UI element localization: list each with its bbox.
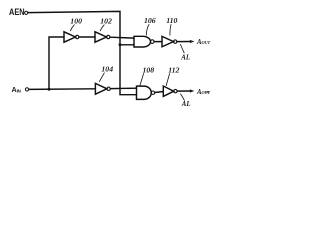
inverter 100: [64, 32, 79, 42]
leader line 104: [99, 73, 104, 82]
svg-text:OUT: OUT: [202, 40, 211, 45]
NAND gate 106: [134, 36, 154, 47]
NAND gate 108: [137, 86, 155, 99]
svg-text:102: 102: [100, 17, 112, 26]
wire AEN junction to NAND 106 lower input: [120, 44, 134, 46]
inverter 110: [162, 36, 177, 46]
leader line 102: [100, 25, 104, 31]
svg-text:112: 112: [168, 65, 179, 74]
arrowhead A_OUT-: [190, 89, 195, 92]
inverter 112: [163, 86, 177, 96]
svg-text:110: 110: [166, 16, 177, 25]
wire branch up to inverter 100 input: [49, 37, 64, 89]
label A_OUT-: [206, 91, 208, 93]
arrowhead A_OUT: [190, 40, 195, 43]
junction node on AEN line: [119, 43, 122, 46]
leader line 110: [170, 25, 171, 36]
wire inverter 110 output with arrow to A_OUT: [177, 41, 190, 43]
leader line AL upper: [180, 44, 184, 53]
wire NAND 106 to inverter 110: [154, 41, 162, 43]
svg-text:AEN: AEN: [9, 7, 25, 17]
wire NAND 108 to inverter 112: [155, 92, 164, 93]
wire inverter 112 output with arrow to A_OUT-: [177, 90, 190, 92]
wire inverter 104 to NAND 108 upper input: [110, 87, 136, 89]
svg-text:104: 104: [101, 65, 113, 74]
wire inverter 102 to NAND 106 upper input: [110, 36, 134, 39]
inverter 102: [95, 32, 110, 42]
wire AEN: horizontal top run, vertical drop, into NAND 108 lower input: [28, 11, 137, 94]
label A_OUT: [196, 39, 210, 46]
label A_IN: [12, 85, 21, 94]
svg-text:108: 108: [143, 65, 155, 74]
terminal AEN: [25, 11, 28, 14]
svg-text:AL: AL: [180, 54, 190, 61]
svg-text:OUT: OUT: [202, 90, 211, 95]
inverter 104: [95, 83, 110, 94]
leader line 100: [70, 25, 74, 31]
leader line AL lower: [181, 94, 185, 100]
leader line 106: [146, 25, 149, 36]
leader line 112: [166, 74, 169, 86]
wire A_IN to inverter 104 input: [29, 88, 96, 91]
junction node A_IN branch: [48, 88, 51, 91]
leader line 108: [140, 74, 144, 86]
svg-text:100: 100: [70, 17, 82, 26]
svg-text:AL: AL: [181, 101, 191, 108]
wire inverter 100 to inverter 102: [79, 36, 95, 38]
terminal A_IN: [25, 88, 28, 91]
svg-text:106: 106: [144, 16, 156, 25]
svg-text:IN: IN: [17, 88, 21, 93]
